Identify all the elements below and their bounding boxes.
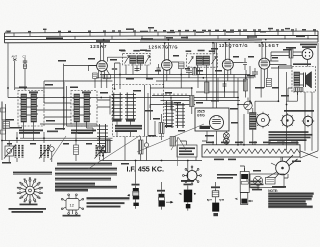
resistor R10 — [244, 74, 248, 98]
switch contact combs — [152, 94, 190, 96]
left edge extras — [5, 104, 7, 141]
wire switch bottom bus — [100, 137, 202, 161]
svg-text:GT/G: GT/G — [197, 114, 205, 118]
tube V1 12SA7 — [89, 43, 110, 81]
wire AVC bus — [8, 97, 238, 99]
resistor R5 right of 12SK7 — [179, 62, 185, 88]
speaker plug box with output transformer and speaker — [292, 67, 316, 93]
alignment socket circle 1 — [255, 112, 271, 128]
wire extensions — [2, 78, 264, 120]
pilot lamp P1 — [223, 133, 229, 139]
oscillator trimmer cluster C1C — [95, 138, 106, 160]
ballast resistor line cord box — [202, 141, 300, 157]
IF transformer T3 second IF — [186, 50, 218, 67]
wire IF1 leads down — [126, 64, 147, 78]
socket diagram mid (output tube socket) — [183, 166, 202, 185]
svg-text:+: + — [220, 198, 222, 202]
antenna coil T1 can — [18, 91, 44, 141]
svg-text:ANT: ANT — [12, 55, 18, 59]
switch wafer S1B — [125, 93, 136, 122]
svg-text:12SQ7GT/G: 12SQ7GT/G — [219, 43, 248, 48]
svg-text:I.F. 455 KC.: I.F. 455 KC. — [127, 164, 165, 173]
resistor R1 under 12SA7 — [103, 75, 110, 79]
pin number labels above bus — [7, 27, 316, 42]
wire 35Z5 to ballast — [202, 66, 250, 145]
IF transformer T2 first IF — [121, 50, 151, 65]
wire right B plus — [238, 66, 292, 150]
svg-text:12SA7: 12SA7 — [90, 44, 107, 49]
wire diagonal dial cord — [50, 124, 204, 169]
resistor R18 near speaker socket — [289, 49, 293, 67]
resistor R15 mid — [159, 114, 164, 140]
resistor R9 cathode 50L6 — [266, 78, 271, 86]
on-off switch box — [250, 174, 284, 188]
resistor R13 right of osc — [106, 140, 110, 153]
svg-text:12SK7GT/G: 12SK7GT/G — [149, 45, 178, 50]
switch label block — [115, 125, 142, 132]
svg-text:12: 12 — [70, 202, 75, 207]
output coupling cluster — [139, 137, 149, 161]
socket diagram large caption TOP OF CHASSIS — [9, 204, 47, 213]
speaker socket label — [286, 44, 317, 49]
wire pointer box leads — [180, 141, 196, 161]
switch wafer S2B — [176, 103, 186, 128]
tube V2 12SK7 — [162, 43, 179, 81]
left notes text block — [55, 163, 117, 192]
coil can caption small — [47, 131, 58, 133]
tube V4 50L6 — [259, 43, 287, 86]
title (1) SWITCH NUMBERING SYSTEM — [13, 172, 52, 175]
electrolytic capacitor B — [157, 190, 173, 210]
capacitor C13 — [238, 58, 247, 70]
wire electrolytic feeds — [136, 161, 245, 190]
tube V3 12SQ7 — [222, 43, 238, 80]
power plug — [271, 155, 298, 178]
wire left vertical rails — [2, 43, 97, 160]
wire mid rails — [15, 75, 254, 89]
svg-text:50L6GT: 50L6GT — [259, 43, 279, 48]
resistor R12 gang row — [74, 132, 79, 161]
alignment label — [284, 110, 314, 112]
socket diagram small (2) — [61, 194, 83, 215]
electrolytic capacitor D — [207, 186, 224, 216]
alignment socket circle 2 — [280, 113, 294, 127]
switch wafer S1A — [112, 93, 123, 122]
antenna ANT — [12, 55, 18, 90]
filter cap value labels — [251, 181, 264, 189]
pilot lamp P2 — [223, 138, 229, 144]
text block (2) SWITCH NUMBERING SYSTEM — [87, 197, 130, 207]
wire switch verticals — [117, 85, 155, 137]
filament supply bus — [5, 28, 319, 43]
alignment socket circle 3 — [302, 115, 314, 127]
ballast tap labels — [206, 142, 298, 144]
terminal strip left edge — [3, 122, 10, 129]
wire IF2 area — [150, 75, 240, 111]
switch wafer S1C — [97, 124, 108, 153]
wire coil can leads — [77, 122, 94, 132]
caption under small socket — [63, 215, 81, 217]
capacitor C4 under 12SA7 — [93, 73, 98, 78]
svg-text:C2: C2 — [23, 54, 27, 58]
capacitor C12 — [186, 66, 192, 78]
trimmer list text — [269, 131, 313, 144]
tuning gang section C1B — [39, 138, 54, 162]
wire osc area extras — [36, 82, 114, 126]
speaker socket — [271, 49, 313, 67]
rectifier 35Z5 box — [195, 43, 229, 131]
wire plug to switch — [246, 172, 288, 190]
volume control R7 — [244, 98, 252, 115]
coil L5 choke — [250, 108, 257, 145]
oscillator coil T4 can — [71, 91, 97, 127]
resistor R17 below 2nd IF — [193, 68, 197, 75]
NOTE text block — [268, 189, 314, 208]
wire right edge — [281, 43, 318, 161]
tuning gang section C1A — [4, 138, 24, 162]
socket diagram large (1) — [17, 177, 43, 203]
band switch assembly box — [113, 85, 164, 137]
electrolytic capacitor C — [180, 180, 196, 211]
rectifier label 455 — [200, 126, 211, 129]
coil can caption 1 — [19, 130, 43, 134]
wire midband extras — [150, 68, 258, 98]
resistor R6 — [190, 88, 195, 114]
coil can caption 2 — [71, 130, 96, 134]
output stage callout box — [177, 145, 197, 157]
resistor R8 — [205, 78, 210, 101]
resistor R16 mid — [170, 137, 176, 147]
switch box caption — [272, 186, 286, 188]
electrolytic capacitor A — [128, 184, 140, 209]
wire output extras — [271, 58, 298, 102]
switch wafer S2A — [165, 101, 175, 128]
wire IF2 leads — [194, 43, 215, 78]
capacitor C14 mid tubes — [157, 64, 161, 75]
capacitor C5 with vertical pair — [107, 57, 127, 89]
electrolytic capacitor E filter — [236, 168, 254, 205]
wire gang row rails — [2, 81, 113, 141]
svg-text:NOTE:: NOTE: — [268, 189, 278, 193]
component value labels — [2, 48, 311, 190]
capacitor C1 antenna coupling — [23, 54, 28, 90]
